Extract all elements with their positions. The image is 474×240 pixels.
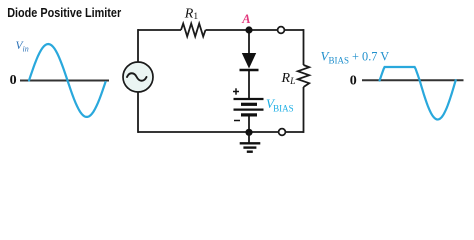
svg-text:VBIAS: VBIAS (266, 96, 294, 114)
svg-text:VBIAS + 0.7 V: VBIAS + 0.7 V (321, 48, 390, 65)
svg-text:0: 0 (350, 73, 357, 88)
svg-text:0: 0 (10, 73, 17, 88)
svg-text:Vin: Vin (16, 40, 29, 54)
svg-text:Diode Positive Limiter: Diode Positive Limiter (7, 5, 121, 20)
svg-text:A: A (241, 12, 250, 26)
svg-text:R1: R1 (184, 6, 199, 22)
svg-text:RL: RL (281, 71, 296, 87)
